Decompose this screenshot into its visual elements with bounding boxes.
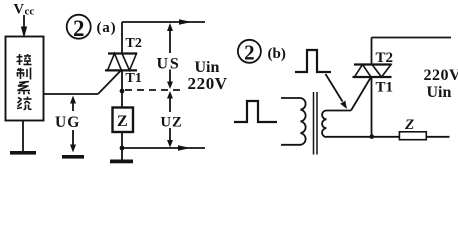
svg-text:US: US [157, 56, 181, 73]
svg-text:220V: 220V [424, 67, 458, 84]
svg-text:V: V [14, 2, 25, 18]
svg-text:UZ: UZ [161, 115, 183, 131]
svg-text:T2: T2 [376, 50, 394, 66]
svg-text:T2: T2 [126, 36, 142, 51]
svg-text:Z: Z [404, 117, 414, 133]
svg-text:(a): (a) [97, 20, 117, 36]
svg-text:Z: Z [117, 113, 128, 130]
svg-text:2: 2 [244, 41, 255, 65]
svg-text:cc: cc [25, 6, 35, 18]
svg-text:UG: UG [55, 114, 80, 131]
svg-text:T1: T1 [376, 80, 394, 96]
svg-text:Uin: Uin [427, 84, 452, 101]
svg-text:2: 2 [73, 16, 85, 41]
svg-text:(b): (b) [268, 46, 286, 62]
svg-text:220V: 220V [188, 74, 228, 93]
svg-text:T1: T1 [126, 71, 142, 86]
